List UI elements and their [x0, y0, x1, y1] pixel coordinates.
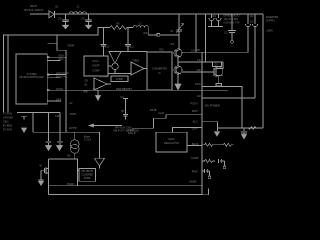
- svg-text:RSTB: RSTB: [150, 109, 157, 112]
- wire primary tap 2: [205, 14, 207, 62]
- svg-text:IC: IC: [158, 72, 161, 75]
- resistor R11: [202, 143, 233, 146]
- svg-text:PUMP: PUMP: [84, 177, 91, 180]
- svg-text:BK: BK: [68, 155, 72, 158]
- svg-text:VW: VW: [196, 69, 201, 72]
- svg-text:C10: C10: [105, 46, 110, 49]
- wire: [178, 35, 180, 49]
- svg-text:GPS: GPS: [56, 97, 62, 101]
- ground: [39, 170, 44, 185]
- svg-text:VFB: VFB: [83, 90, 88, 93]
- svg-text:LM: LM: [197, 95, 200, 98]
- wire: [99, 132, 101, 158]
- wire: [177, 57, 179, 66]
- svg-text:OSC +: OSC +: [92, 60, 100, 63]
- wire AGND rail: [49, 185, 203, 187]
- svg-text:1 COMP: 1 COMP: [100, 75, 110, 78]
- op-amp U5 comparator: [85, 75, 112, 90]
- wire ALC: [172, 128, 202, 133]
- transistor Q4: [171, 43, 183, 57]
- svg-text:GLPI: GLPI: [159, 112, 165, 115]
- svg-text:CONVERTER: CONVERTER: [152, 68, 167, 71]
- wire filtered branch: [8, 28, 110, 36]
- wire: [99, 166, 101, 169]
- svg-text:ANTB: ANTB: [70, 113, 77, 116]
- capacitor C18: [202, 169, 211, 179]
- op-amp U4 pwm: [131, 59, 147, 75]
- wire VW gate: [182, 71, 214, 73]
- pin bubbles: [47, 56, 49, 58]
- capacitor C19: [121, 96, 129, 120]
- IC U3 osc comparator: [84, 56, 111, 76]
- wire battery rail down: [32, 113, 34, 133]
- ground: [215, 128, 264, 136]
- ground: [22, 128, 27, 132]
- transformer T1 primary: [208, 14, 223, 27]
- transistor Q7: [40, 165, 49, 175]
- svg-text:FREQ: FREQ: [133, 59, 140, 62]
- wire battery top: [17, 112, 60, 114]
- motor M1: [68, 132, 80, 159]
- svg-text:VD1: VD1: [159, 49, 164, 52]
- wire main rail: [55, 13, 264, 15]
- wire BCK: [47, 74, 67, 78]
- svg-text:DGN: DGN: [195, 83, 201, 86]
- capacitor C10: [100, 28, 110, 57]
- wire: [177, 74, 179, 84]
- wire sync rail: [47, 87, 228, 91]
- wire PGND rail: [49, 194, 203, 196]
- svg-text:ANTTP: ANTTP: [69, 127, 77, 130]
- svg-text:COMP: COMP: [116, 78, 124, 81]
- wire osc top feed: [121, 51, 147, 53]
- wire: [30, 13, 49, 15]
- svg-text:VDDP: VDDP: [67, 43, 74, 47]
- node 1.25V label: [128, 129, 136, 135]
- wire: [127, 27, 133, 29]
- battery BT1: [21, 116, 27, 119]
- wire: [148, 28, 179, 35]
- inductor L2: [69, 6, 87, 15]
- svg-text:BT: BT: [122, 110, 126, 113]
- wire bus bottom hook: [202, 186, 209, 195]
- wire: [108, 73, 131, 75]
- wire bus left: [65, 50, 67, 132]
- svg-text:VBATT: VBATT: [30, 5, 38, 8]
- IC U6 converter: [147, 52, 172, 90]
- svg-text:PINF: PINF: [192, 170, 198, 173]
- capacitor C12 trimmer: [171, 14, 184, 35]
- svg-text:BY BMS: BY BMS: [3, 125, 12, 128]
- wire VDDP net: [48, 35, 75, 50]
- svg-text:REGULATOR: REGULATOR: [164, 142, 179, 145]
- ground: [242, 135, 247, 139]
- svg-text:3.7-8.4V: 3.7-8.4V: [3, 113, 12, 116]
- svg-text:BCK/DAL: BCK/DAL: [56, 74, 68, 78]
- node sense label: [114, 127, 140, 133]
- capacitor C2: [224, 14, 236, 43]
- svg-text:CB: CB: [85, 79, 89, 82]
- resistor R12: [202, 160, 215, 163]
- svg-text:AV: AV: [70, 102, 73, 105]
- svg-text:1-9.1A: 1-9.1A: [84, 139, 91, 142]
- svg-text:TO AVR: TO AVR: [3, 129, 12, 132]
- wire left rail A: [4, 35, 9, 113]
- svg-text:PGTN: PGTN: [191, 103, 198, 106]
- svg-text:CH: CH: [191, 50, 195, 53]
- node VNA net label: [143, 32, 160, 37]
- wire right bus: [201, 52, 203, 186]
- inductor L3: [133, 23, 148, 28]
- svg-text:12V RAIL SUPPLY: 12V RAIL SUPPLY: [24, 9, 44, 12]
- capacitor C9: [81, 14, 92, 25]
- resistor R8 sense: [216, 84, 222, 87]
- node inverter label: [266, 16, 278, 33]
- wire DGN out: [202, 86, 242, 128]
- wire SCL: [47, 57, 64, 61]
- svg-text:LITHIUM: LITHIUM: [3, 117, 13, 120]
- node driven label: [224, 15, 240, 25]
- wire motor feed: [33, 131, 100, 133]
- svg-text:9W IF ATY SENSE BLK: 9W IF ATY SENSE BLK: [114, 130, 140, 133]
- svg-text:VNA: VNA: [143, 32, 148, 35]
- node arrow annotation: [89, 124, 122, 127]
- svg-text:COMP: COMP: [92, 69, 100, 72]
- svg-text:HI EFF: HI EFF: [92, 65, 100, 68]
- capacitor C15: [45, 113, 51, 146]
- svg-text:COMP: COMP: [191, 157, 199, 160]
- ground: [95, 158, 105, 166]
- oscillator clock symbol: [109, 52, 121, 74]
- capacitor C17: [219, 159, 226, 169]
- svg-text:MICROCONTROLLER: MICROCONTROLLER: [19, 76, 44, 79]
- IC U7 main regulator: [156, 132, 187, 152]
- svg-text:SYNC: SYNC: [56, 87, 63, 91]
- ground: [175, 84, 181, 90]
- capacitor C11: [125, 28, 135, 52]
- svg-text:PGND: PGND: [67, 183, 74, 186]
- transistor Q5: [174, 66, 182, 74]
- wire rail drop: [262, 14, 264, 128]
- IC U9 pump box: [79, 168, 96, 181]
- node COMP box: [111, 76, 128, 82]
- ground: [86, 25, 92, 29]
- wire: [202, 122, 218, 131]
- wire left rail B: [7, 35, 9, 113]
- transformer T1 secondary: [245, 14, 257, 98]
- svg-text:DO: DO: [250, 21, 254, 24]
- wire SDA: [47, 54, 66, 58]
- svg-text:LK: LK: [197, 59, 200, 62]
- node VBATT supply label: [24, 5, 44, 12]
- svg-text:AGND: AGND: [189, 181, 196, 184]
- wire LRCLK: [47, 71, 69, 75]
- ground: [96, 90, 101, 100]
- svg-text:+350V: +350V: [266, 30, 273, 33]
- battery BT1 label: [3, 113, 13, 132]
- resistor R10: [248, 127, 256, 130]
- svg-text:S18: S18: [55, 115, 60, 118]
- wire LM out: [202, 97, 255, 99]
- svg-text:MAIN: MAIN: [169, 138, 175, 141]
- svg-text:BLPI: BLPI: [192, 110, 198, 113]
- wire staircase BLPI: [132, 112, 202, 128]
- IC U2 system microcontroller: [16, 54, 47, 104]
- resistor R5: [110, 23, 127, 30]
- capacitor C6: [58, 14, 69, 25]
- capacitor C13: [241, 128, 248, 134]
- node Boost label: [84, 135, 91, 141]
- wire BACK: [187, 145, 202, 147]
- svg-text:SDA: SDA: [59, 54, 65, 58]
- svg-text:CELL: CELL: [3, 121, 10, 124]
- ground: [57, 146, 63, 151]
- svg-text:ALC: ALC: [193, 120, 198, 123]
- capacitor C16: [57, 113, 63, 146]
- wire LK: [178, 61, 223, 63]
- IC U8 driver box: [49, 159, 78, 195]
- wire GPS: [47, 97, 61, 101]
- ground: [63, 25, 69, 29]
- transistor Q1 mosfet: [213, 62, 223, 84]
- ground: [46, 146, 52, 151]
- svg-text:C11: C11: [130, 46, 135, 49]
- diode D1: [49, 6, 59, 18]
- wire CH1: [182, 51, 248, 53]
- svg-text:SUPPLY: SUPPLY: [266, 20, 276, 23]
- svg-text:SCL: SCL: [59, 57, 65, 61]
- wire pin: [78, 170, 80, 172]
- svg-text:15V POWER: 15V POWER: [205, 104, 220, 108]
- wire primary tap 1: [191, 14, 196, 53]
- svg-text:GLPI: GLPI: [192, 128, 198, 131]
- svg-text:RSET/BSTBY: RSET/BSTBY: [116, 87, 132, 91]
- svg-text:LRCLK/DA: LRCLK/DA: [56, 71, 69, 75]
